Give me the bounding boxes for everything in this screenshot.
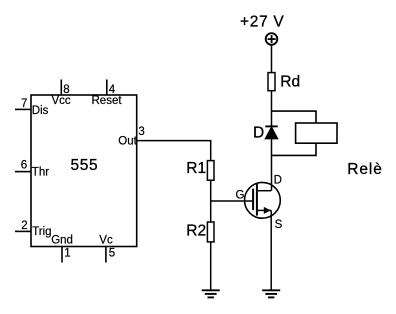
wire source to ground bbox=[270, 210, 272, 290]
resistor R1 bbox=[186, 160, 214, 180]
svg-text:Gnd: Gnd bbox=[51, 235, 73, 247]
svg-text:3: 3 bbox=[138, 126, 144, 138]
wire Out to R1 bbox=[137, 141, 211, 161]
IC U1 555 body bbox=[31, 95, 137, 247]
svg-text:5: 5 bbox=[109, 248, 115, 260]
svg-text:Vc: Vc bbox=[99, 234, 113, 246]
svg-text:6: 6 bbox=[21, 159, 27, 171]
wire R2 to ground bbox=[210, 242, 212, 290]
svg-text:555: 555 bbox=[71, 157, 99, 174]
svg-text:D: D bbox=[253, 124, 264, 141]
svg-text:2: 2 bbox=[21, 220, 27, 232]
diode D bbox=[253, 124, 278, 141]
svg-text:1: 1 bbox=[64, 248, 70, 260]
svg-text:Dis: Dis bbox=[32, 105, 49, 117]
wire supply to Rd bbox=[271, 45, 273, 73]
relay coil box bbox=[296, 123, 337, 143]
wire R1 to R2 bbox=[210, 180, 212, 222]
svg-text:S: S bbox=[275, 219, 283, 231]
wire Rd to diode bbox=[271, 91, 273, 127]
svg-text:Relè: Relè bbox=[347, 161, 382, 178]
wire node to gate bbox=[211, 200, 253, 202]
svg-text:G: G bbox=[236, 190, 245, 202]
ground (below R2) bbox=[202, 290, 220, 297]
MOSFET Q1 bbox=[236, 174, 283, 231]
pin 8 (Vcc) bbox=[52, 80, 71, 108]
pin 6 (Thr) bbox=[15, 159, 49, 178]
svg-text:Reset: Reset bbox=[92, 95, 123, 107]
resistor R2 bbox=[186, 222, 214, 242]
pin 5 (Vc) bbox=[99, 234, 115, 262]
svg-text:R1: R1 bbox=[186, 160, 206, 177]
pin 4 (Reset) bbox=[92, 80, 123, 108]
supply terminal +27 V bbox=[240, 13, 284, 44]
wire diode to MOSFET drain bbox=[271, 139, 273, 191]
resistor Rd bbox=[268, 73, 300, 91]
svg-text:Thr: Thr bbox=[32, 166, 49, 178]
svg-text:Vcc: Vcc bbox=[52, 95, 71, 107]
ground (below MOSFET source) bbox=[262, 290, 280, 297]
svg-text:7: 7 bbox=[21, 98, 27, 110]
pin 3 (Out) bbox=[118, 126, 145, 147]
pin 7 (Dis) bbox=[15, 98, 49, 117]
svg-text:Rd: Rd bbox=[280, 74, 300, 91]
svg-text:Out: Out bbox=[118, 135, 137, 147]
svg-text:Trig: Trig bbox=[32, 226, 51, 238]
svg-text:D: D bbox=[274, 174, 282, 186]
relay coil branch wire bbox=[272, 111, 317, 155]
pin 1 (Gnd) bbox=[51, 235, 73, 263]
svg-text:+27 V: +27 V bbox=[240, 13, 284, 30]
svg-text:R2: R2 bbox=[186, 223, 206, 240]
pin 2 (Trig) bbox=[15, 220, 52, 238]
